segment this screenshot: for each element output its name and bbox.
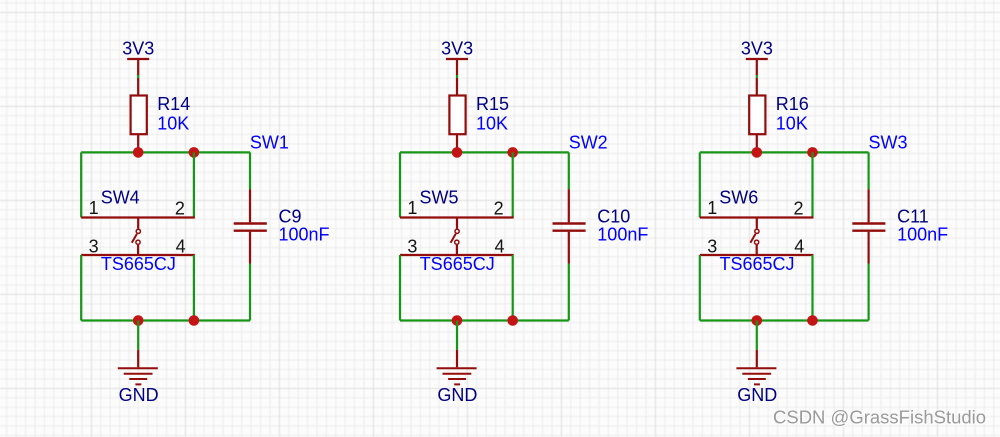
svg-text:SW4: SW4 bbox=[101, 187, 140, 207]
switch SW6 TS665CJ bbox=[700, 187, 814, 273]
wire (power stub) bbox=[456, 75, 458, 78]
svg-text:3: 3 bbox=[407, 237, 417, 257]
wire (capacitor bottom vertical) bbox=[568, 264, 570, 321]
svg-text:GND: GND bbox=[437, 385, 477, 405]
wire (right upper vertical) bbox=[811, 152, 813, 217]
wire (right lower vertical) bbox=[193, 255, 195, 321]
ground GND bbox=[736, 350, 777, 405]
wire (right upper vertical) bbox=[193, 152, 195, 217]
wire (ground stub) bbox=[137, 321, 139, 350]
svg-text:SW5: SW5 bbox=[420, 187, 459, 207]
resistor R15 10K bbox=[449, 78, 509, 152]
junction (top right) bbox=[807, 147, 818, 158]
switch SW4 TS665CJ bbox=[81, 187, 195, 273]
ground GND bbox=[118, 350, 159, 405]
svg-text:2: 2 bbox=[175, 198, 185, 218]
junction (top right) bbox=[507, 147, 518, 158]
wire (right lower vertical) bbox=[512, 255, 514, 321]
wire (left upper vertical) bbox=[699, 152, 701, 217]
svg-text:100nF: 100nF bbox=[597, 225, 648, 245]
wire (right lower vertical) bbox=[811, 255, 813, 321]
svg-text:R15: R15 bbox=[476, 94, 509, 114]
capacitor C10 100nF bbox=[553, 189, 649, 263]
svg-text:TS665CJ: TS665CJ bbox=[720, 254, 795, 274]
capacitor C9 100nF bbox=[234, 189, 330, 263]
svg-text:TS665CJ: TS665CJ bbox=[420, 254, 495, 274]
wire (bottom rail) bbox=[700, 319, 869, 321]
svg-text:3: 3 bbox=[89, 237, 99, 257]
wire (capacitor bottom vertical) bbox=[249, 264, 251, 321]
svg-text:R16: R16 bbox=[776, 94, 809, 114]
wire (capacitor top vertical) bbox=[249, 152, 251, 189]
junction (bottom left) bbox=[133, 315, 144, 326]
resistor R16 10K bbox=[749, 78, 809, 152]
junction (bottom right) bbox=[507, 315, 518, 326]
power symbol 3V3 (SW2 circuit) bbox=[441, 39, 473, 75]
node SW2 top rail bbox=[400, 151, 569, 153]
wire (ground stub) bbox=[456, 321, 458, 350]
wire (ground stub) bbox=[756, 321, 758, 350]
svg-text:GND: GND bbox=[737, 385, 777, 405]
svg-text:CSDN @GrassFishStudio: CSDN @GrassFishStudio bbox=[773, 407, 986, 428]
svg-text:1: 1 bbox=[89, 198, 99, 218]
svg-text:2: 2 bbox=[494, 198, 504, 218]
node SW1 top rail bbox=[81, 151, 250, 153]
resistor R14 10K bbox=[131, 78, 191, 152]
power symbol 3V3 (SW3 circuit) bbox=[741, 39, 773, 75]
ground GND bbox=[437, 350, 478, 405]
wire (right upper vertical) bbox=[512, 152, 514, 217]
svg-text:3V3: 3V3 bbox=[122, 39, 154, 59]
junction (bottom right) bbox=[189, 315, 200, 326]
wire (capacitor top vertical) bbox=[568, 152, 570, 189]
wire (power stub) bbox=[137, 75, 139, 78]
svg-text:100nF: 100nF bbox=[279, 225, 330, 245]
wire (left upper vertical) bbox=[399, 152, 401, 217]
switch SW5 TS665CJ bbox=[400, 187, 514, 273]
wire (left lower vertical) bbox=[699, 255, 701, 321]
svg-text:4: 4 bbox=[176, 236, 186, 256]
svg-text:SW3: SW3 bbox=[869, 133, 908, 153]
svg-text:SW6: SW6 bbox=[719, 187, 758, 207]
svg-text:10K: 10K bbox=[776, 114, 808, 134]
svg-text:3: 3 bbox=[707, 237, 717, 257]
svg-text:10K: 10K bbox=[157, 114, 189, 134]
svg-text:2: 2 bbox=[793, 198, 803, 218]
svg-text:SW1: SW1 bbox=[250, 133, 289, 153]
junction (bottom right) bbox=[807, 315, 818, 326]
svg-text:4: 4 bbox=[794, 236, 804, 256]
junction (top left) bbox=[752, 147, 763, 158]
svg-text:R14: R14 bbox=[157, 94, 190, 114]
wire (left lower vertical) bbox=[399, 255, 401, 321]
svg-text:10K: 10K bbox=[476, 114, 508, 134]
capacitor C11 100nF bbox=[852, 189, 948, 263]
node SW3 top rail bbox=[700, 151, 869, 153]
svg-text:1: 1 bbox=[707, 198, 717, 218]
wire (left upper vertical) bbox=[80, 152, 82, 217]
svg-text:4: 4 bbox=[494, 236, 504, 256]
wire (bottom rail) bbox=[400, 319, 569, 321]
svg-text:TS665CJ: TS665CJ bbox=[101, 254, 176, 274]
wire (power stub) bbox=[756, 75, 758, 78]
junction (top left) bbox=[452, 147, 463, 158]
wire (capacitor bottom vertical) bbox=[867, 264, 869, 321]
svg-text:3V3: 3V3 bbox=[741, 39, 773, 59]
svg-text:SW2: SW2 bbox=[569, 133, 608, 153]
junction (top left) bbox=[133, 147, 144, 158]
wire (capacitor top vertical) bbox=[867, 152, 869, 189]
svg-text:GND: GND bbox=[119, 385, 159, 405]
wire (bottom rail) bbox=[81, 319, 250, 321]
junction (bottom left) bbox=[452, 315, 463, 326]
svg-text:100nF: 100nF bbox=[897, 225, 948, 245]
wire (left lower vertical) bbox=[80, 255, 82, 321]
junction (bottom left) bbox=[752, 315, 763, 326]
junction (top right) bbox=[189, 147, 200, 158]
power symbol 3V3 (SW1 circuit) bbox=[122, 39, 154, 75]
svg-text:3V3: 3V3 bbox=[441, 39, 473, 59]
svg-text:1: 1 bbox=[407, 198, 417, 218]
